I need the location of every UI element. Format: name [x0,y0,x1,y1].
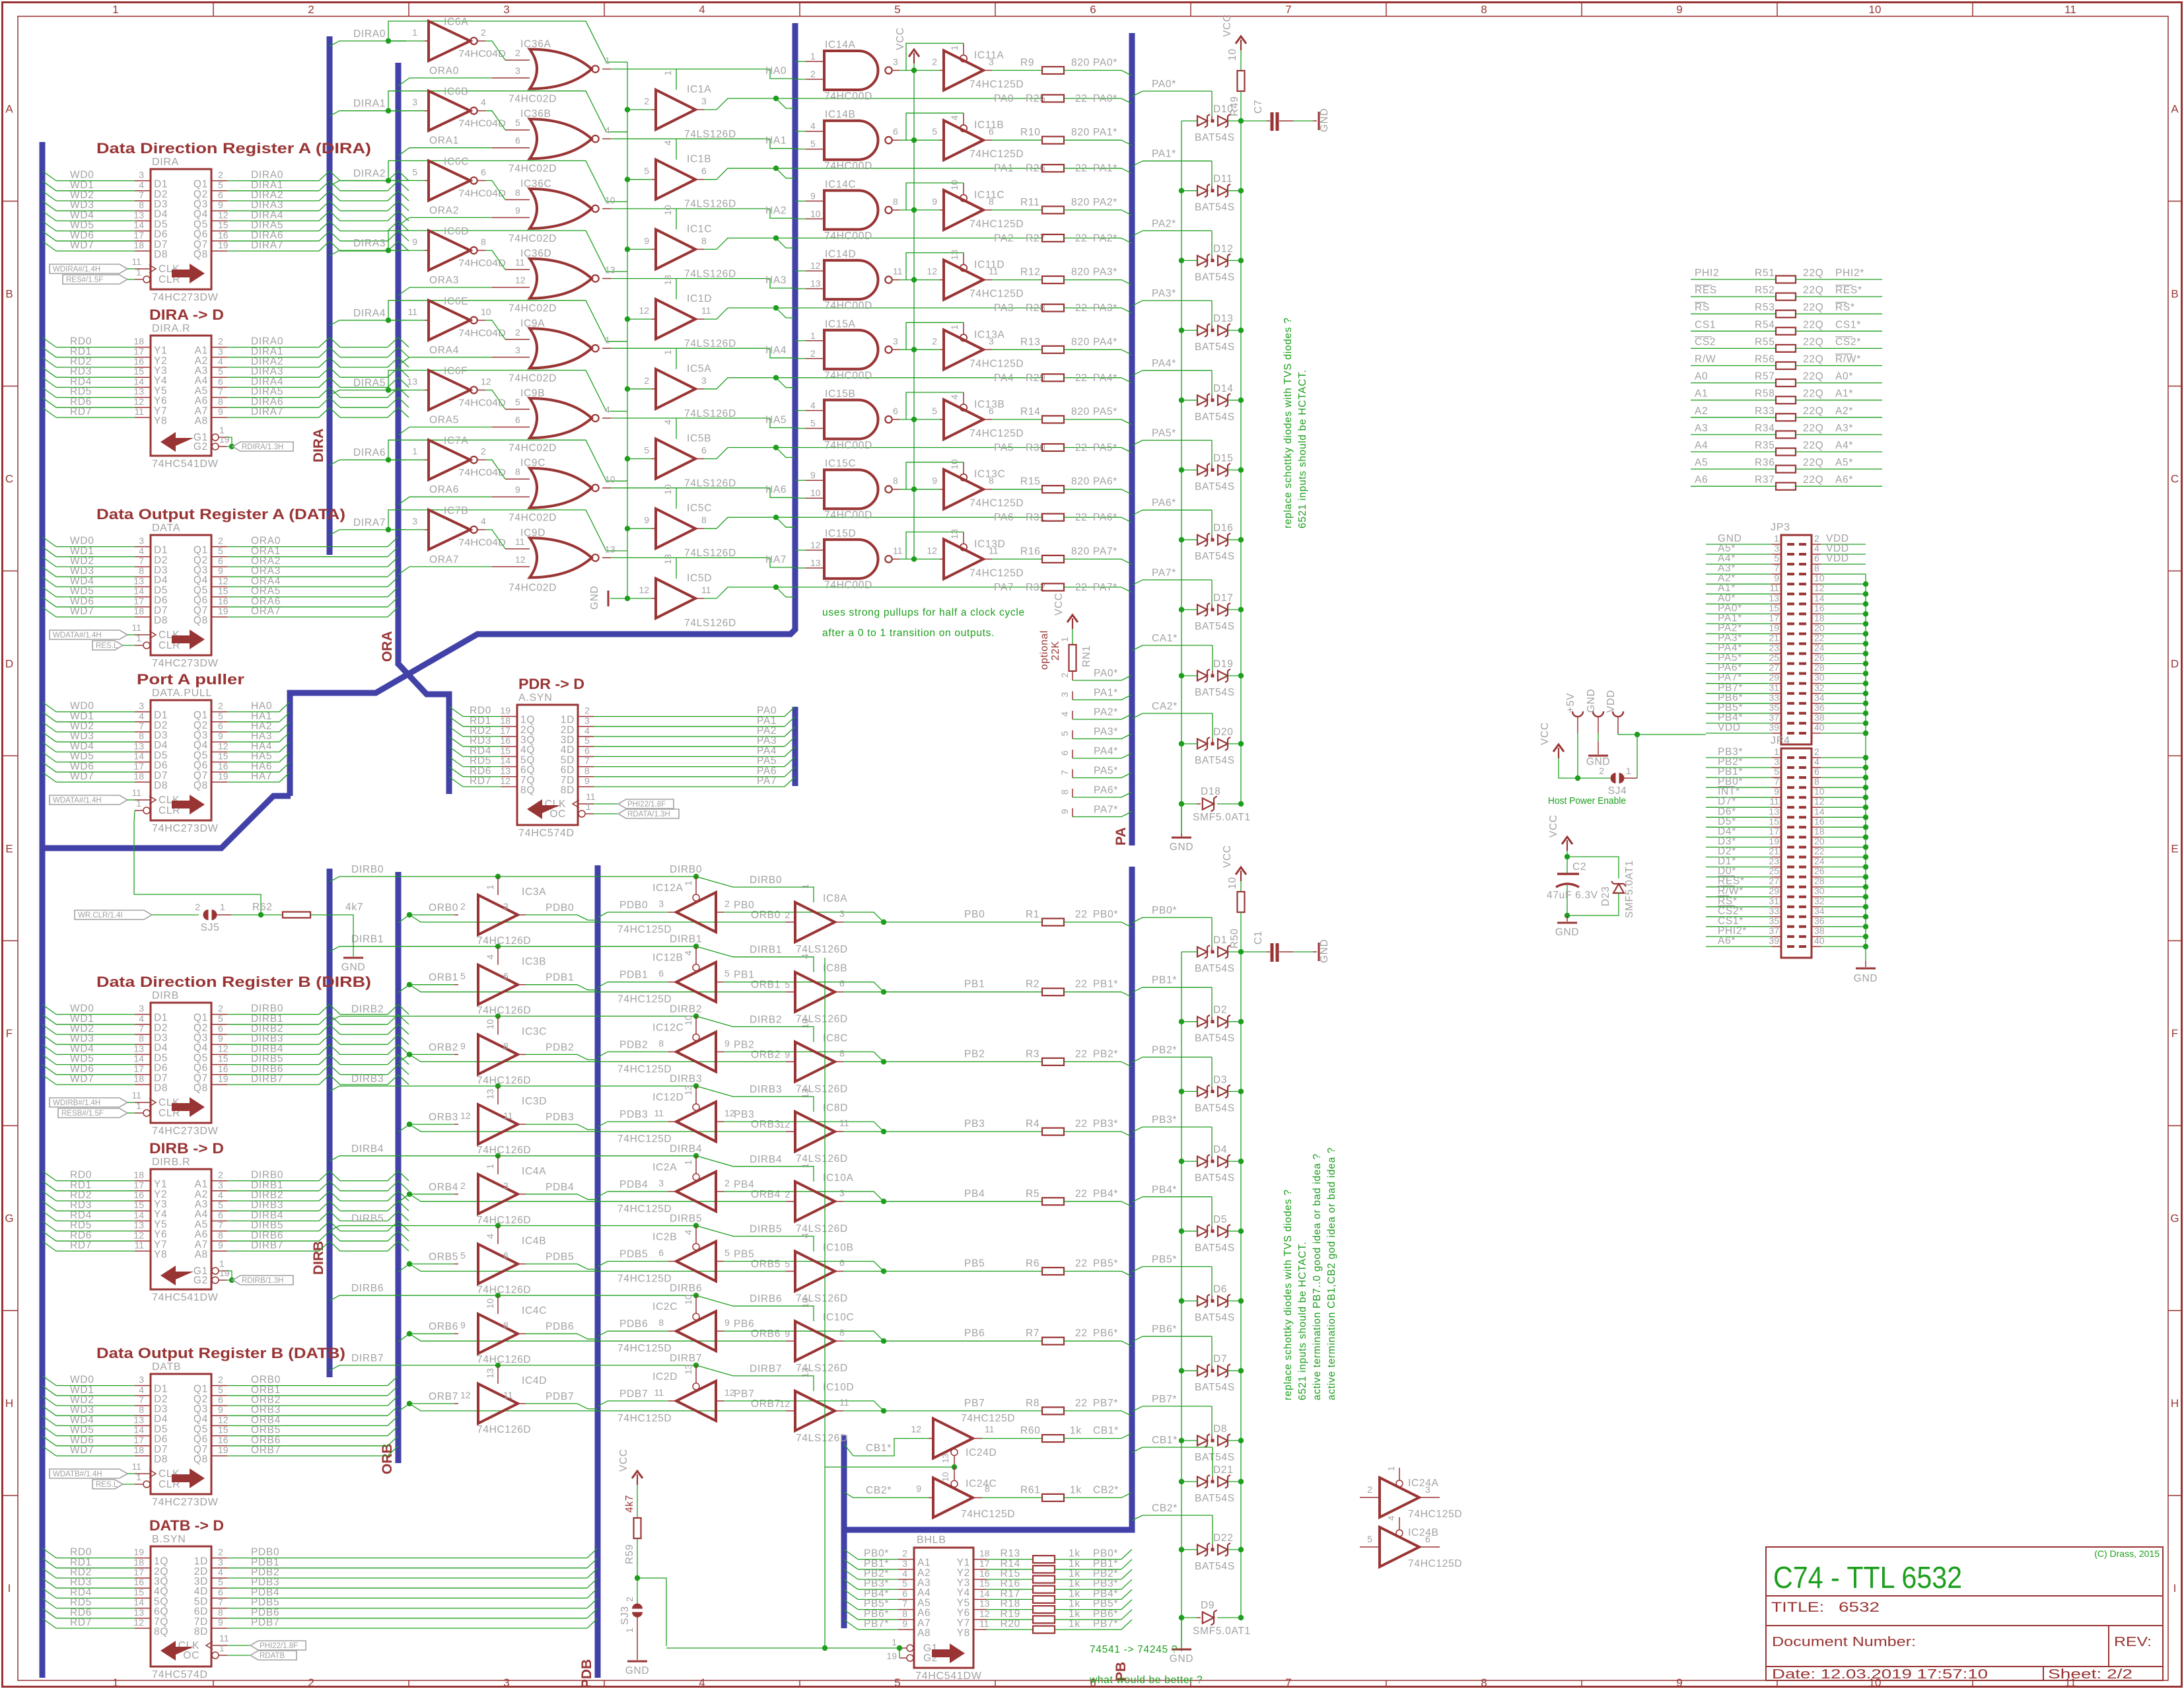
svg-text:C7: C7 [1253,100,1264,114]
svg-text:8: 8 [989,196,994,207]
svg-text:7: 7 [584,756,590,766]
svg-text:PA2*: PA2* [1093,197,1117,208]
svg-text:ORB2: ORB2 [429,1042,458,1053]
svg-text:15: 15 [1769,816,1779,826]
svg-text:4: 4 [1059,711,1070,717]
svg-text:5: 5 [810,418,816,429]
svg-text:ORB2: ORB2 [751,1049,781,1060]
svg-text:16: 16 [500,735,511,746]
svg-text:D: D [5,657,13,670]
svg-text:74HC541DW: 74HC541DW [152,1292,219,1303]
svg-text:18: 18 [133,771,144,781]
svg-text:R3: R3 [1026,1048,1039,1060]
svg-text:DIRA1: DIRA1 [353,98,386,110]
svg-text:D16: D16 [1213,522,1234,534]
svg-text:17: 17 [133,596,144,606]
svg-text:PA0*: PA0* [1094,668,1118,679]
svg-text:10: 10 [1869,3,1882,16]
svg-text:IC24B: IC24B [1408,1527,1439,1538]
svg-text:11: 11 [219,1633,229,1643]
svg-text:1: 1 [412,27,417,38]
svg-text:A4*: A4* [1835,440,1853,451]
svg-text:15: 15 [218,220,229,231]
svg-text:8: 8 [839,1327,845,1338]
svg-text:IC5C: IC5C [687,503,712,514]
svg-text:3: 3 [839,1188,845,1198]
svg-text:R55: R55 [1755,336,1775,347]
svg-text:1: 1 [219,1643,225,1653]
svg-text:9: 9 [644,235,649,246]
svg-text:WDATB#/1.4H: WDATB#/1.4H [53,1470,102,1478]
svg-text:74HC02D: 74HC02D [509,303,557,314]
svg-text:3: 3 [584,715,590,726]
svg-text:74HC00D: 74HC00D [824,91,872,102]
svg-text:11: 11 [131,1461,141,1472]
svg-text:4: 4 [218,1567,223,1577]
svg-text:5: 5 [515,397,520,408]
svg-text:28: 28 [1814,876,1825,886]
svg-text:PA2: PA2 [994,233,1014,244]
svg-text:11: 11 [134,406,144,417]
svg-text:10: 10 [1814,573,1825,583]
svg-text:74HC00D: 74HC00D [824,440,872,451]
svg-text:9: 9 [218,406,223,417]
svg-text:+5V: +5V [1565,693,1576,713]
svg-text:A5: A5 [1695,457,1708,468]
svg-text:ORA7: ORA7 [429,554,459,565]
svg-text:5: 5 [724,1248,730,1258]
svg-text:ORA7: ORA7 [251,606,281,617]
svg-text:PA2*: PA2* [1094,707,1118,718]
svg-text:WR.CLR/1.4I: WR.CLR/1.4I [78,912,123,919]
svg-text:74HC125D: 74HC125D [961,1413,1015,1424]
svg-text:22: 22 [1075,233,1088,244]
svg-text:74HC126D: 74HC126D [477,1005,531,1017]
svg-text:19: 19 [1769,623,1779,633]
svg-text:R58: R58 [1755,388,1775,400]
svg-text:14: 14 [1814,806,1825,816]
svg-text:14: 14 [133,1597,144,1608]
svg-text:74HC00D: 74HC00D [824,579,872,591]
svg-text:3: 3 [701,96,707,106]
svg-text:RN1: RN1 [1081,645,1092,667]
svg-text:PB3: PB3 [964,1118,985,1130]
svg-text:CB2*: CB2* [866,1485,892,1496]
svg-text:6: 6 [584,745,590,756]
svg-text:WD7: WD7 [70,1445,94,1456]
svg-text:replace schottky diodes with T: replace schottky diodes with TVS diodes … [1283,317,1294,528]
svg-text:14: 14 [979,1588,990,1599]
svg-text:IC15D: IC15D [825,528,856,539]
svg-text:ORB3: ORB3 [429,1112,458,1123]
svg-text:74HC00D: 74HC00D [824,301,872,312]
svg-text:74HC126D: 74HC126D [477,1285,531,1296]
svg-text:74HC04D: 74HC04D [458,398,506,409]
svg-text:R56: R56 [1755,354,1775,365]
svg-text:PA5*: PA5* [1094,766,1118,777]
svg-text:19: 19 [218,606,229,616]
svg-text:D1: D1 [1213,935,1227,946]
svg-text:14: 14 [133,1425,144,1435]
svg-text:IC15A: IC15A [825,318,856,330]
svg-text:BHLB: BHLB [917,1534,946,1546]
svg-text:D8: D8 [154,615,168,626]
svg-text:Date: 12.03.2019 17:57:10: Date: 12.03.2019 17:57:10 [1772,1667,1988,1682]
svg-text:7: 7 [218,1220,223,1231]
svg-text:6532: 6532 [1839,1600,1880,1615]
svg-text:9: 9 [218,199,223,210]
svg-text:74HC04D: 74HC04D [458,48,506,59]
svg-text:1: 1 [112,1676,118,1689]
svg-text:2: 2 [932,336,937,346]
svg-text:8: 8 [218,396,223,407]
svg-text:6: 6 [893,126,898,137]
svg-text:5: 5 [218,180,223,190]
svg-text:D20: D20 [1213,727,1234,738]
svg-text:3: 3 [989,336,994,346]
svg-text:Host Power Enable: Host Power Enable [1548,795,1626,807]
svg-text:5: 5 [218,546,223,556]
svg-text:Q8: Q8 [194,780,208,791]
svg-text:IC14A: IC14A [825,40,856,51]
svg-text:22: 22 [1075,303,1088,314]
svg-text:IC36B: IC36B [520,108,551,120]
svg-text:PDB4: PDB4 [619,1179,648,1190]
svg-text:12: 12 [810,260,821,271]
svg-text:ORB3: ORB3 [751,1119,781,1130]
svg-text:11: 11 [407,306,417,317]
svg-text:IC4C: IC4C [522,1305,547,1316]
svg-text:17: 17 [133,346,144,357]
svg-text:IC3C: IC3C [522,1026,547,1037]
svg-text:WD7: WD7 [70,1073,94,1085]
svg-text:74HC04D: 74HC04D [458,118,506,129]
svg-text:6: 6 [218,1209,223,1220]
svg-text:27: 27 [1769,876,1779,886]
svg-text:ORB0: ORB0 [429,902,458,914]
svg-text:DIRB1: DIRB1 [351,934,384,945]
svg-text:PB7: PB7 [734,1388,754,1400]
svg-text:A3*: A3* [1835,423,1853,434]
svg-text:A4: A4 [1695,440,1708,451]
svg-text:TITLE:: TITLE: [1771,1600,1824,1615]
svg-text:DIRA -> D: DIRA -> D [149,306,224,323]
svg-text:18: 18 [133,240,144,250]
svg-text:21: 21 [1769,846,1779,857]
svg-text:PB6*: PB6* [1093,1328,1118,1339]
svg-text:R13: R13 [1020,336,1041,347]
svg-text:1: 1 [662,71,673,76]
svg-text:WDATA#/1.4H: WDATA#/1.4H [53,797,102,805]
svg-text:74HC00D: 74HC00D [824,161,872,172]
svg-text:PB3*: PB3* [1093,1118,1118,1130]
svg-text:GND: GND [1586,688,1597,713]
svg-text:5: 5 [894,1676,900,1689]
svg-text:8D: 8D [194,1626,208,1637]
svg-text:11: 11 [586,791,596,802]
svg-text:2: 2 [218,1375,223,1385]
svg-text:ORB6: ORB6 [429,1321,458,1332]
svg-text:4: 4 [485,1234,495,1239]
svg-text:37: 37 [1769,925,1779,936]
svg-text:14: 14 [133,220,144,231]
svg-text:12: 12 [218,740,229,751]
svg-text:8: 8 [1814,563,1819,573]
svg-text:8: 8 [989,476,994,486]
svg-text:5: 5 [412,166,417,177]
svg-text:10: 10 [810,487,821,498]
svg-text:WDIRB#/1.4H: WDIRB#/1.4H [53,1099,100,1107]
svg-text:32: 32 [1814,682,1825,693]
svg-text:11: 11 [839,1118,849,1128]
svg-text:6: 6 [218,721,223,731]
svg-text:2: 2 [644,375,649,386]
svg-text:5: 5 [515,118,520,128]
svg-text:PA6*: PA6* [1093,512,1117,523]
svg-text:4: 4 [800,1233,810,1239]
svg-text:8: 8 [658,1038,664,1048]
svg-text:18: 18 [979,1548,990,1559]
svg-text:12: 12 [927,266,937,277]
svg-text:74LS126D: 74LS126D [796,1223,848,1235]
svg-text:74HC02D: 74HC02D [509,163,557,174]
svg-text:74HC125D: 74HC125D [617,1133,672,1145]
svg-text:PB1*: PB1* [1093,979,1118,990]
svg-text:PA7*: PA7* [1152,567,1176,579]
svg-text:22: 22 [1075,443,1088,454]
svg-text:5: 5 [932,406,937,416]
svg-text:15: 15 [133,1587,144,1597]
svg-text:7: 7 [139,190,144,200]
svg-text:RDIRA/1.3H: RDIRA/1.3H [242,443,283,451]
svg-text:DIRB0: DIRB0 [750,875,782,886]
svg-text:74HC574D: 74HC574D [152,1669,208,1680]
svg-text:ORB5: ORB5 [429,1252,458,1263]
svg-text:5: 5 [218,711,223,721]
svg-text:2: 2 [218,536,223,546]
svg-text:BAT54S: BAT54S [1195,755,1235,766]
svg-text:6: 6 [218,556,223,566]
svg-text:34: 34 [1814,906,1825,916]
svg-text:74LS126D: 74LS126D [684,478,736,489]
svg-text:C74 - TTL 6532: C74 - TTL 6532 [1773,1560,1962,1595]
svg-text:DIRB3: DIRB3 [351,1073,384,1085]
svg-text:VCC: VCC [895,27,906,50]
svg-text:2: 2 [1599,766,1604,776]
svg-text:PA: PA [1113,827,1129,845]
svg-text:3: 3 [503,1676,509,1689]
svg-text:9: 9 [1059,809,1070,814]
svg-text:PA0: PA0 [994,93,1014,104]
svg-text:820: 820 [1071,546,1090,557]
svg-text:14: 14 [133,1209,144,1220]
svg-text:74HC02D: 74HC02D [509,373,557,384]
svg-text:IC6E: IC6E [444,296,468,307]
svg-text:8: 8 [701,235,707,246]
svg-text:7: 7 [1774,563,1779,573]
svg-text:GND: GND [1170,842,1194,853]
svg-text:6: 6 [218,1587,223,1597]
svg-text:74HC125D: 74HC125D [617,994,672,1005]
svg-text:Data Direction Register B (DIR: Data Direction Register B (DIRB) [96,974,371,990]
svg-text:22: 22 [1075,163,1088,174]
svg-text:28: 28 [1814,663,1825,673]
svg-text:8: 8 [1481,3,1487,16]
svg-text:13: 13 [133,575,144,586]
svg-text:R1: R1 [1026,909,1039,920]
svg-text:A6*: A6* [1718,935,1736,947]
svg-text:12: 12 [927,545,937,556]
svg-text:36: 36 [1814,916,1825,926]
svg-text:2: 2 [932,57,937,67]
svg-text:G: G [2170,1212,2179,1225]
svg-text:5: 5 [460,971,466,982]
svg-text:I: I [8,1582,11,1595]
svg-text:IC1C: IC1C [687,223,712,234]
svg-text:74HC273DW: 74HC273DW [152,292,219,303]
svg-text:1: 1 [800,1163,810,1168]
svg-text:38: 38 [1814,925,1825,936]
svg-text:12: 12 [133,1230,144,1240]
svg-text:13: 13 [133,1043,144,1054]
svg-text:B: B [5,288,13,301]
svg-text:13: 13 [800,1088,810,1098]
svg-text:IC14C: IC14C [825,179,856,190]
svg-text:G2: G2 [194,1275,208,1286]
svg-text:replace schottky diodes with T: replace schottky diodes with TVS diodes … [1283,1189,1294,1400]
svg-text:BAT54S: BAT54S [1195,963,1235,974]
svg-text:74LS126D: 74LS126D [796,1153,848,1165]
svg-text:12: 12 [1814,583,1825,593]
svg-text:PB3: PB3 [734,1109,754,1120]
svg-text:IC9B: IC9B [520,388,545,399]
svg-text:1: 1 [220,902,225,912]
svg-text:74HC574D: 74HC574D [518,828,575,839]
svg-text:IC2D: IC2D [652,1371,678,1383]
svg-text:11: 11 [503,1110,513,1121]
svg-text:1: 1 [485,1164,495,1169]
svg-text:6: 6 [481,166,486,177]
svg-text:12: 12 [218,575,229,586]
svg-text:4k7: 4k7 [624,1495,635,1513]
svg-text:REV:: REV: [2114,1635,2152,1649]
svg-text:8: 8 [584,766,590,776]
svg-text:9: 9 [1774,786,1779,797]
svg-text:PB4: PB4 [734,1179,754,1190]
svg-text:8: 8 [515,466,520,477]
svg-text:5: 5 [1367,1534,1372,1544]
svg-text:4: 4 [481,97,486,108]
svg-text:CB1*: CB1* [866,1443,892,1454]
svg-text:IC6F: IC6F [444,366,468,377]
svg-text:11: 11 [134,1240,144,1250]
svg-text:15: 15 [133,366,144,377]
svg-text:R14: R14 [1020,406,1041,417]
svg-text:7: 7 [1285,3,1291,16]
svg-text:4: 4 [949,115,960,120]
svg-text:15: 15 [218,1054,229,1064]
svg-text:R7: R7 [1026,1328,1039,1339]
svg-text:CB2*: CB2* [1152,1503,1178,1514]
svg-text:4: 4 [139,180,144,190]
svg-text:12: 12 [979,1608,990,1619]
svg-text:C1: C1 [1253,931,1264,945]
svg-text:PB1: PB1 [964,979,985,990]
svg-text:74HC125D: 74HC125D [969,498,1024,509]
svg-text:ORA6: ORA6 [429,484,459,495]
svg-text:5: 5 [584,735,590,746]
svg-text:2: 2 [515,48,520,58]
svg-text:47uF 6.3V: 47uF 6.3V [1547,890,1598,901]
svg-text:CA2*: CA2* [1152,701,1178,712]
svg-text:31: 31 [1769,682,1779,693]
svg-text:PDR -> D: PDR -> D [518,676,584,692]
svg-text:19: 19 [886,1651,897,1661]
svg-text:G: G [5,1212,13,1225]
svg-text:D4: D4 [1213,1144,1227,1155]
svg-text:22: 22 [1075,512,1088,523]
svg-text:DIRB6: DIRB6 [750,1293,782,1305]
svg-text:8: 8 [1814,776,1819,787]
svg-text:13: 13 [949,250,960,260]
svg-text:8: 8 [139,1404,144,1415]
svg-text:820: 820 [1071,57,1090,69]
svg-text:1: 1 [949,46,960,51]
svg-text:PB3*: PB3* [1152,1114,1177,1126]
svg-text:CS1*: CS1* [1835,319,1861,330]
svg-text:19: 19 [500,705,511,716]
svg-text:optional: optional [1039,630,1050,670]
svg-text:14: 14 [133,376,144,386]
svg-text:PHI2: PHI2 [1695,268,1719,279]
svg-text:A0: A0 [1695,371,1708,382]
svg-text:24: 24 [1814,856,1825,867]
svg-text:13: 13 [1769,593,1779,603]
svg-text:5: 5 [218,1384,223,1395]
svg-text:DIRB1: DIRB1 [670,934,702,945]
svg-text:A6*: A6* [1835,474,1853,485]
svg-text:12: 12 [481,377,491,387]
svg-text:IC2B: IC2B [652,1232,677,1243]
svg-text:PB6: PB6 [734,1318,754,1330]
svg-text:DATB: DATB [152,1361,181,1373]
svg-text:2: 2 [481,27,486,38]
svg-text:2: 2 [308,3,314,16]
svg-text:10: 10 [949,459,960,470]
svg-text:D12: D12 [1213,243,1234,254]
svg-text:6: 6 [701,166,707,176]
svg-text:IC4A: IC4A [522,1166,546,1177]
svg-text:what would be better ?: what would be better ? [1089,1674,1203,1686]
svg-text:PA3*: PA3* [1093,267,1117,278]
svg-text:R34: R34 [1755,423,1775,434]
svg-text:5: 5 [810,139,816,149]
svg-text:7: 7 [218,1597,223,1608]
svg-text:PHI22/1.8F: PHI22/1.8F [627,801,666,809]
svg-text:PA4*: PA4* [1093,336,1117,347]
svg-text:I: I [2173,1582,2177,1595]
svg-text:R15: R15 [1020,476,1041,487]
svg-text:IC12B: IC12B [652,952,684,964]
svg-text:10: 10 [662,484,673,495]
svg-text:WD7: WD7 [70,606,94,617]
svg-text:23: 23 [1769,856,1779,867]
svg-text:3: 3 [893,57,898,67]
svg-text:11: 11 [515,536,525,547]
svg-text:1k: 1k [1069,1618,1080,1630]
svg-text:IC10B: IC10B [823,1242,854,1254]
svg-text:PDB4: PDB4 [546,1182,574,1193]
